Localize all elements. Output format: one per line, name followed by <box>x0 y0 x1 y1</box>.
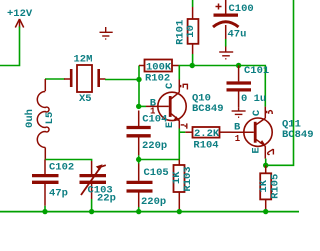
svg-text:1K: 1K <box>258 179 270 192</box>
junction C104/C105 node <box>136 157 141 162</box>
svg-text:C102: C102 <box>49 162 74 174</box>
svg-text:12M: 12M <box>74 54 93 66</box>
ground under C100 <box>219 47 233 59</box>
svg-text:R102: R102 <box>145 72 170 84</box>
transistor Q11 <box>232 107 273 159</box>
svg-text:1: 1 <box>235 134 241 144</box>
resistor R103 <box>174 160 185 212</box>
junction C102/bus <box>42 209 47 214</box>
pin number 3 of Q10 emitter <box>181 123 187 128</box>
svg-text:L5: L5 <box>44 112 56 125</box>
svg-text:47u: 47u <box>228 29 247 41</box>
svg-text:0uh: 0uh <box>24 109 36 128</box>
power symbol +12V arrow <box>15 19 23 28</box>
wire C104 bottom to node <box>138 155 140 159</box>
resistor R102 <box>139 60 179 72</box>
plus mark of C100 <box>216 4 222 10</box>
svg-text:BC849: BC849 <box>282 129 314 141</box>
wire Q11 emitter to node <box>265 159 267 166</box>
wire C100 to ground <box>225 39 227 47</box>
transistor Q10 <box>146 80 186 129</box>
capacitor C100 polarized <box>213 0 239 39</box>
wire node up to R102 left lead <box>138 66 140 80</box>
svg-text:C: C <box>164 82 176 89</box>
capacitor C101 <box>227 66 252 108</box>
svg-text:+12V: +12V <box>7 8 33 20</box>
wire R101 top to edge <box>192 0 194 7</box>
junction base node <box>136 104 141 109</box>
junction C103/bus <box>89 209 94 214</box>
resistor R104 <box>185 127 231 138</box>
svg-text:BC849: BC849 <box>192 103 224 115</box>
junction R105/bus <box>263 209 268 214</box>
resistor R101 <box>188 7 199 54</box>
wire C105 to bus <box>138 207 140 212</box>
wire base node to Q10 base <box>139 105 146 107</box>
svg-text:C105: C105 <box>144 167 169 179</box>
wire node to emitter branch <box>139 159 180 161</box>
capacitor C102 <box>32 160 59 206</box>
crystal X5 <box>64 65 106 92</box>
wire crystal right to base node <box>105 79 139 81</box>
junction Q11 emitter node <box>263 163 268 168</box>
inductor L5 <box>37 79 49 160</box>
svg-text:X5: X5 <box>79 93 92 105</box>
wire crystal left lead to L5 top <box>45 78 65 80</box>
svg-text:C: C <box>251 109 263 116</box>
pin number 2 of Q10 collector <box>181 84 188 89</box>
pin number 3 of Q11 collector <box>267 111 273 114</box>
svg-text:E: E <box>251 147 263 153</box>
junction C105/bus <box>136 209 141 214</box>
wire tank node horizontal <box>45 160 92 162</box>
svg-text:R105: R105 <box>270 174 282 199</box>
svg-text:C101: C101 <box>244 65 269 77</box>
capacitor C105 <box>127 164 153 208</box>
trimmer capacitor C103 <box>80 161 107 199</box>
svg-text:10: 10 <box>185 25 197 38</box>
wire emitter node right and up to edge <box>266 0 294 165</box>
resistor R105 <box>260 166 271 212</box>
wire Q10 collector to rail <box>178 66 180 80</box>
svg-text:0 1u: 0 1u <box>241 93 266 105</box>
junction crystal/R102 node <box>136 77 141 82</box>
wire emitter to R104 <box>179 131 185 133</box>
ground under C101 <box>232 107 246 117</box>
svg-text:C104: C104 <box>142 114 167 126</box>
capacitor C104 <box>127 111 151 156</box>
wire R101 bottom to rail <box>192 54 194 66</box>
junction R103/bus <box>177 209 182 214</box>
svg-text:22p: 22p <box>97 192 116 204</box>
ground bus wire <box>0 211 299 213</box>
wire from +12V down and left to edge <box>0 27 20 66</box>
svg-text:R103: R103 <box>182 166 194 191</box>
svg-text:2.2K: 2.2K <box>194 128 220 140</box>
svg-text:220p: 220p <box>142 140 167 152</box>
ground near crystal <box>100 27 113 39</box>
wire C103 to bus <box>91 199 93 212</box>
wire Q10 emitter node down <box>178 129 180 160</box>
junction C101/rail <box>236 63 241 68</box>
wire node down to base node <box>138 80 140 107</box>
pin number 2 of Q11 emitter <box>268 149 274 155</box>
svg-text:B: B <box>234 122 241 134</box>
wire C102 to bus <box>44 206 46 212</box>
svg-text:R104: R104 <box>193 139 218 151</box>
svg-text:220p: 220p <box>141 196 166 208</box>
svg-text:47p: 47p <box>49 188 68 200</box>
wire top rail to Q11 collector <box>179 66 266 107</box>
wire C105 top stub <box>138 160 140 164</box>
junction R101/rail <box>190 63 195 68</box>
svg-text:C100: C100 <box>229 3 254 15</box>
